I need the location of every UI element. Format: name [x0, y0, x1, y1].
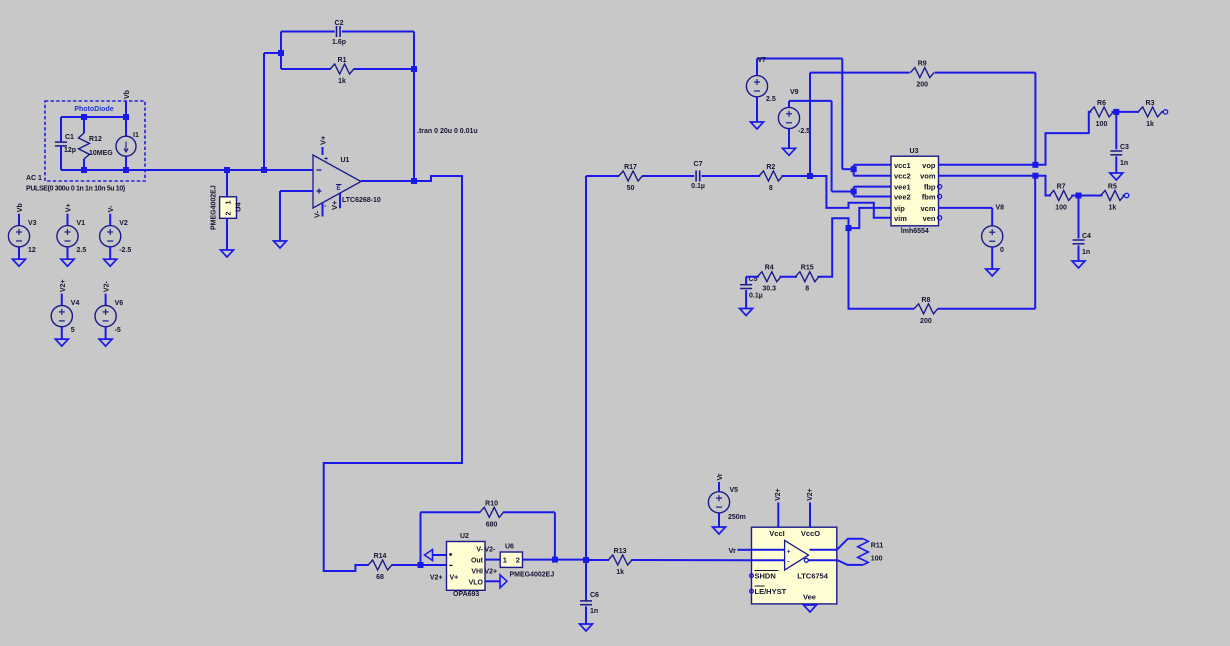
svg-text:8: 8: [769, 185, 773, 192]
svg-text:V1: V1: [77, 220, 86, 227]
svg-text:2: 2: [226, 212, 233, 216]
svg-text:R11: R11: [871, 543, 884, 550]
svg-text:12p: 12p: [64, 147, 76, 154]
svg-text:VccO: VccO: [801, 529, 820, 538]
svg-text:U3: U3: [910, 148, 919, 155]
svg-text:Vee: Vee: [803, 592, 816, 601]
svg-text:1: 1: [503, 556, 507, 565]
svg-text:R13: R13: [614, 548, 627, 555]
svg-text:C6: C6: [590, 592, 599, 599]
svg-text:R9: R9: [918, 61, 927, 68]
svg-text:SHDN: SHDN: [755, 572, 776, 581]
svg-text:E: E: [337, 186, 341, 192]
svg-text:vom: vom: [920, 172, 936, 181]
svg-text:V2-: V2-: [485, 547, 497, 554]
svg-text:-: -: [324, 203, 327, 210]
svg-text:1k: 1k: [616, 569, 624, 576]
svg-text:R12: R12: [89, 136, 102, 143]
svg-text:R5: R5: [1108, 184, 1117, 191]
svg-text:R15: R15: [801, 265, 814, 272]
svg-text:U4: U4: [234, 202, 243, 212]
svg-text:V2+: V2+: [807, 488, 814, 501]
svg-text:V2: V2: [119, 220, 128, 227]
svg-text:PULSE(0 300u 0 1n 1n 10n 5u 10: PULSE(0 300u 0 1n 1n 10n 5u 10): [26, 186, 125, 193]
svg-text:AC 1: AC 1: [26, 175, 42, 182]
svg-text:Vb: Vb: [124, 90, 131, 99]
svg-text:V-: V-: [476, 547, 483, 554]
svg-text:V+: V+: [450, 575, 459, 582]
svg-text:68: 68: [376, 574, 384, 581]
svg-text:V5: V5: [730, 487, 739, 494]
svg-text:U1: U1: [341, 157, 350, 164]
svg-text:-2.5: -2.5: [119, 247, 131, 254]
svg-text:2.5: 2.5: [766, 96, 776, 103]
svg-text:vee2: vee2: [894, 193, 911, 202]
svg-text:0: 0: [1000, 247, 1004, 254]
svg-text:+: +: [787, 549, 791, 556]
svg-text:LTC6268-10: LTC6268-10: [342, 197, 381, 204]
svg-text:R3: R3: [1146, 100, 1155, 107]
svg-text:fbm: fbm: [922, 193, 936, 202]
svg-text:+: +: [324, 156, 328, 163]
svg-text:V+: V+: [66, 203, 73, 212]
svg-text:R8: R8: [921, 297, 930, 304]
svg-text:R10: R10: [485, 500, 498, 507]
svg-text:1: 1: [226, 201, 233, 205]
svg-text:Vb: Vb: [17, 203, 24, 212]
svg-text:2.5: 2.5: [77, 247, 87, 254]
svg-text:V6: V6: [115, 300, 124, 307]
svg-text:V2-: V2-: [104, 281, 111, 293]
svg-text:250m: 250m: [728, 514, 746, 521]
svg-text:lmh6554: lmh6554: [901, 228, 929, 235]
svg-text:Vr: Vr: [728, 546, 736, 555]
svg-text:100: 100: [1096, 121, 1108, 128]
svg-text:10MEG: 10MEG: [89, 150, 113, 157]
svg-text:30.3: 30.3: [762, 286, 776, 293]
svg-text:PMEG4002EJ: PMEG4002EJ: [510, 572, 555, 579]
svg-text:R14: R14: [374, 553, 387, 560]
svg-text:200: 200: [920, 318, 932, 325]
svg-text:200: 200: [916, 82, 928, 89]
svg-text:C7: C7: [694, 161, 703, 168]
svg-text:vcc1: vcc1: [894, 161, 911, 170]
svg-text:100: 100: [1055, 205, 1067, 212]
svg-text:PMEG4002EJ: PMEG4002EJ: [211, 185, 218, 230]
svg-text:C2: C2: [335, 20, 344, 27]
svg-text:-2.5: -2.5: [798, 128, 810, 135]
svg-text:R2: R2: [766, 164, 775, 171]
svg-text:V2+: V2+: [430, 575, 443, 582]
svg-text:V2+: V2+: [775, 488, 782, 501]
svg-text:V2+: V2+: [60, 279, 67, 292]
svg-text:1.6p: 1.6p: [332, 39, 346, 46]
svg-text:V+: V+: [319, 135, 328, 145]
svg-text:50: 50: [627, 185, 635, 192]
svg-text:V-: V-: [313, 210, 322, 218]
svg-text:vip: vip: [894, 204, 905, 213]
svg-text:1k: 1k: [1146, 121, 1154, 128]
svg-text:Out: Out: [471, 558, 484, 565]
svg-text:VLO: VLO: [469, 580, 484, 587]
svg-text:R7: R7: [1057, 184, 1066, 191]
svg-text:R1: R1: [338, 57, 347, 64]
svg-text:C4: C4: [1082, 233, 1091, 240]
svg-text:1k: 1k: [338, 78, 346, 85]
svg-text:V4: V4: [71, 300, 80, 307]
svg-text:R17: R17: [624, 164, 637, 171]
svg-text:vcc2: vcc2: [894, 172, 911, 181]
svg-text:-5: -5: [115, 327, 121, 334]
svg-text:0.1µ: 0.1µ: [691, 183, 705, 190]
svg-text:LE/HYST: LE/HYST: [755, 587, 787, 596]
svg-text:1k: 1k: [1109, 205, 1117, 212]
svg-text:R6: R6: [1097, 100, 1106, 107]
svg-text:V-: V-: [108, 205, 115, 212]
svg-text:U2: U2: [460, 533, 469, 540]
svg-text:5: 5: [71, 327, 75, 334]
svg-text:U6: U6: [505, 544, 514, 551]
svg-text:VHI: VHI: [471, 569, 483, 576]
svg-text:.tran 0 20u 0 0.01u: .tran 0 20u 0 0.01u: [417, 128, 478, 135]
svg-text:C3: C3: [1120, 144, 1129, 151]
svg-text:12: 12: [28, 247, 36, 254]
svg-text:1n: 1n: [590, 608, 598, 615]
svg-text:Vr: Vr: [717, 473, 724, 480]
svg-text:PhotoDiode: PhotoDiode: [74, 106, 113, 113]
svg-text:C1: C1: [65, 134, 74, 141]
svg-text:V9: V9: [790, 89, 799, 96]
svg-text:I1: I1: [133, 132, 139, 139]
svg-text:R4: R4: [765, 265, 774, 272]
svg-text:0.1µ: 0.1µ: [749, 293, 763, 300]
svg-text:V2+: V2+: [485, 569, 498, 576]
svg-text:100: 100: [871, 556, 883, 563]
svg-text:1n: 1n: [1082, 249, 1090, 256]
svg-text:fbp: fbp: [924, 183, 936, 192]
svg-text:2: 2: [516, 556, 520, 565]
svg-text:vop: vop: [922, 161, 936, 170]
svg-text:V7: V7: [758, 57, 767, 64]
svg-text:V8: V8: [996, 205, 1005, 212]
svg-text:vee1: vee1: [894, 183, 911, 192]
svg-text:V+: V+: [330, 200, 339, 210]
svg-text:LTC6754: LTC6754: [797, 572, 829, 581]
svg-text:680: 680: [486, 521, 498, 528]
svg-text:-: -: [787, 559, 789, 566]
svg-text:V3: V3: [28, 220, 37, 227]
svg-text:vim: vim: [894, 214, 907, 223]
svg-text:VccI: VccI: [769, 529, 784, 538]
svg-text:1n: 1n: [1120, 160, 1128, 167]
svg-text:8: 8: [805, 286, 809, 293]
svg-text:vcm: vcm: [920, 204, 935, 213]
svg-text:ven: ven: [923, 214, 936, 223]
svg-text:OPA693: OPA693: [453, 591, 479, 598]
